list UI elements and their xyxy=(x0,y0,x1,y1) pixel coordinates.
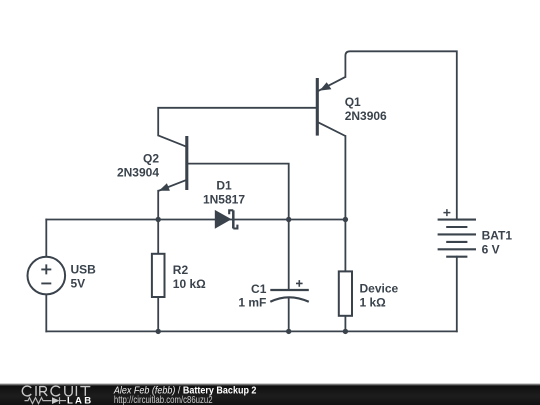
svg-text:BAT1: BAT1 xyxy=(482,228,513,242)
wire: USB bottom lead xyxy=(45,294,47,331)
wire: bottom rail xyxy=(46,330,457,332)
svg-text:C1: C1 xyxy=(251,282,267,296)
wire: Q1 collector down to device / main node xyxy=(344,136,346,271)
svg-text:LAB: LAB xyxy=(67,396,93,405)
wire: battery bottom lead xyxy=(456,257,458,332)
svg-text:R2: R2 xyxy=(173,263,189,277)
voltage source USB 5V xyxy=(28,257,97,295)
transistor Q2 2N3904 xyxy=(117,135,187,191)
node: bottom rail C1 xyxy=(286,329,291,334)
svg-text:Q2: Q2 xyxy=(143,151,159,165)
node: bottom rail R2 xyxy=(156,329,161,334)
resistor Device 1 k xyxy=(339,271,399,315)
node: R2/emitter junction xyxy=(156,217,161,222)
node: bottom rail device xyxy=(343,329,348,334)
wire: Q2 emitter lead down to node xyxy=(157,191,159,220)
resistor R2 10 k xyxy=(152,254,206,297)
wire: C1 top lead xyxy=(288,220,290,291)
battery BAT1 6V xyxy=(438,209,513,257)
node: device/collector junction xyxy=(343,217,348,222)
svg-text:2N3906: 2N3906 xyxy=(345,109,387,123)
wire: C1 bottom lead xyxy=(288,297,290,331)
svg-text:http://circuitlab.com/c86uzu2: http://circuitlab.com/c86uzu2 xyxy=(114,394,213,405)
svg-text:5V: 5V xyxy=(71,277,86,291)
wire: R2 bottom lead xyxy=(157,297,159,331)
svg-text:1 kΩ: 1 kΩ xyxy=(360,296,387,310)
wire: USB top lead xyxy=(45,220,47,257)
footer bar xyxy=(0,383,540,386)
svg-text:Q1: Q1 xyxy=(345,95,361,109)
node: C1/D1/base junction xyxy=(286,217,291,222)
wire: Q1 emitter to top rail to battery + xyxy=(345,51,456,219)
svg-text:1 mF: 1 mF xyxy=(238,296,266,310)
wire: Q2 base to node at x=289 xyxy=(187,164,289,220)
transistor Q1 2N3906 xyxy=(317,77,387,136)
svg-text:2N3904: 2N3904 xyxy=(117,166,159,180)
wire: R2 top lead xyxy=(157,220,159,254)
logo resistor-diode glyph xyxy=(25,397,67,404)
logo CIRCUIT text xyxy=(22,386,90,396)
diode D1 1N5817 xyxy=(203,178,245,228)
svg-text:Device: Device xyxy=(360,281,399,295)
wire: Q2 collector to Q1 base (net at y=108) xyxy=(158,108,317,136)
capacitor C1 1 mF (polarized) xyxy=(238,280,308,309)
svg-text:USB: USB xyxy=(71,263,97,277)
wire: device bottom lead xyxy=(344,316,346,332)
svg-text:6 V: 6 V xyxy=(482,243,500,257)
svg-text:D1: D1 xyxy=(216,178,232,192)
svg-text:1N5817: 1N5817 xyxy=(203,192,245,206)
wire: main horizontal rail y=219.5 xyxy=(46,219,345,221)
svg-text:10 kΩ: 10 kΩ xyxy=(173,277,206,291)
